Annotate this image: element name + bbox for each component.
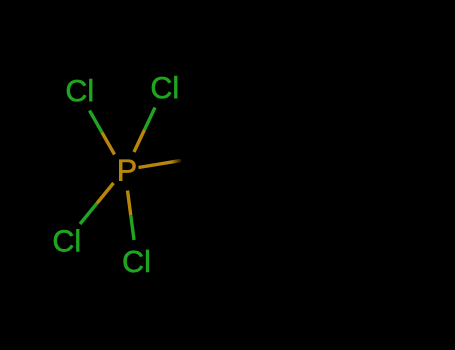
wire P-Cl3 green half (at Cl3): [80, 204, 97, 225]
atom label Cl2 (top-right chlorine): [152, 76, 177, 98]
wire P-Cl2 green half (at Cl2): [145, 108, 156, 130]
atom label Cl3 (bottom-left chlorine): [54, 229, 79, 251]
atom label Cl4 (bottom chlorine): [124, 250, 149, 272]
wire P-C gold half (carbon half invisible on black): [139, 160, 182, 167]
atom label Cl1 (top-left chlorine): [67, 79, 92, 101]
wire P-Cl1 green half (at Cl1): [90, 111, 103, 133]
atom label P (phosphorus): [119, 160, 135, 181]
wire P-Cl4 gold half (at P): [128, 191, 131, 216]
wire P-Cl3 gold half (at P): [97, 183, 114, 204]
wire P-Cl1 gold half (at P): [102, 133, 115, 155]
wire P-Cl4 green half (at Cl4): [131, 215, 134, 240]
wire P-Cl2 gold half (at P): [134, 130, 145, 152]
